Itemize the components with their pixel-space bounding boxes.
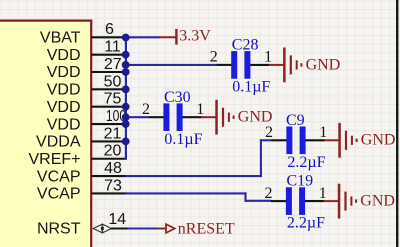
svg-text:1: 1: [319, 124, 327, 141]
svg-text:75: 75: [104, 91, 122, 108]
junction dot y=89.35: [122, 85, 130, 93]
svg-text:20: 20: [104, 143, 122, 160]
svg-text:2: 2: [265, 185, 273, 202]
wire VCAP73 drop (vertical): [244, 192, 246, 201]
svg-text:C19: C19: [287, 173, 314, 190]
svg-text:VDDA: VDDA: [36, 134, 81, 151]
svg-text:73: 73: [104, 177, 122, 194]
wire VCAP pin73 to C19 (horizontal): [126, 192, 247, 194]
svg-text:GND: GND: [306, 56, 341, 73]
net port nRESET triangle: [157, 224, 175, 233]
svg-text:50: 50: [104, 73, 122, 90]
svg-text:VDD: VDD: [47, 116, 81, 133]
svg-text:C28: C28: [232, 37, 259, 54]
junction dot y=117.2: [122, 113, 130, 121]
svg-text:NRST: NRST: [37, 221, 81, 238]
svg-text:1: 1: [319, 185, 327, 202]
svg-text:VBAT: VBAT: [40, 30, 81, 47]
pin 100 (VDD) stub wire: [91, 123, 127, 125]
svg-text:3.3V: 3.3V: [179, 27, 211, 44]
wire bus to C28: [126, 64, 217, 66]
pin 11 (VDD) stub wire: [91, 54, 127, 56]
junction dot y=64.9: [122, 61, 130, 69]
pin 20 (VREF+) stub wire: [91, 158, 127, 160]
vertical power bus wire: [125, 36, 127, 159]
svg-text:21: 21: [104, 125, 122, 142]
ground GND (C30): [201, 100, 272, 135]
svg-text:0.1µF: 0.1µF: [232, 79, 270, 96]
capacitor C19 leads+plates: [271, 187, 324, 215]
junction dot y=141.4: [122, 138, 130, 146]
svg-text:VDD: VDD: [47, 99, 81, 116]
MCU component block U1 (partial, left edge): [0, 21, 91, 247]
svg-text:VDD: VDD: [47, 82, 81, 99]
pin 50 (VDD) stub wire: [91, 88, 127, 90]
junction dot y=72.0: [122, 68, 130, 76]
ground GND (C9): [324, 123, 395, 158]
capacitor C30 leads+plates: [149, 103, 202, 131]
svg-text:0.1µF: 0.1µF: [164, 131, 202, 148]
wire NRST to port: [127, 227, 157, 229]
wire VCAP48 riser (vertical): [260, 139, 262, 177]
capacitor C9 leads+plates: [272, 127, 325, 155]
svg-text:48: 48: [104, 160, 122, 177]
pin 6 (VBAT) stub wire: [91, 36, 127, 38]
pin 73 (VCAP) stub wire: [91, 192, 127, 194]
svg-text:VDD: VDD: [47, 64, 81, 81]
svg-text:2.2µF: 2.2µF: [287, 154, 325, 171]
svg-text:VCAP: VCAP: [37, 186, 81, 203]
junction dot y=37.5: [122, 34, 130, 42]
junction dot y=54.65: [122, 51, 130, 59]
svg-text:VDD: VDD: [47, 47, 81, 64]
svg-text:2: 2: [210, 49, 218, 66]
wire VBAT row to 3.3V: [126, 36, 160, 38]
junction dot y=124.05: [122, 120, 130, 128]
pin 27 (VDD) stub wire: [91, 71, 127, 73]
ground GND (C28): [269, 48, 340, 83]
svg-text:nRESET: nRESET: [178, 220, 235, 237]
svg-text:1: 1: [264, 49, 272, 66]
pin 14 (NRST) input indicator diamond: [93, 224, 111, 233]
wire drop to C19 (horizontal): [245, 200, 272, 202]
svg-text:C9: C9: [286, 112, 305, 129]
capacitor C28 leads+plates: [216, 51, 269, 79]
svg-text:6: 6: [105, 21, 114, 38]
svg-text:2.2µF: 2.2µF: [287, 215, 325, 232]
ground GND (C19): [324, 184, 395, 219]
wire VCAP pin48 to C9 (horizontal): [126, 175, 262, 177]
svg-text:11: 11: [104, 39, 121, 56]
svg-text:VREF+: VREF+: [28, 151, 80, 168]
svg-text:GND: GND: [361, 132, 396, 149]
wire bus to C30: [126, 116, 149, 118]
svg-text:GND: GND: [360, 193, 395, 210]
svg-text:14: 14: [108, 211, 126, 228]
junction dot y=106.7: [122, 103, 130, 111]
svg-text:1: 1: [196, 101, 204, 118]
pin 14 (NRST) stub wire: [111, 227, 128, 229]
svg-text:VCAP: VCAP: [37, 168, 81, 185]
wire riser to C9 (horizontal): [260, 139, 272, 141]
svg-text:2: 2: [142, 101, 150, 118]
sheet border (right edge): [396, 0, 398, 247]
pin 75 (VDD) stub wire: [91, 106, 127, 108]
svg-text:2: 2: [265, 124, 273, 141]
power port 3.3V (bar): [159, 29, 178, 45]
svg-text:27: 27: [104, 56, 122, 73]
pin 21 (VDDA) stub wire: [91, 140, 127, 142]
svg-text:C30: C30: [164, 89, 191, 106]
pin 48 (VCAP) stub wire: [91, 175, 127, 177]
